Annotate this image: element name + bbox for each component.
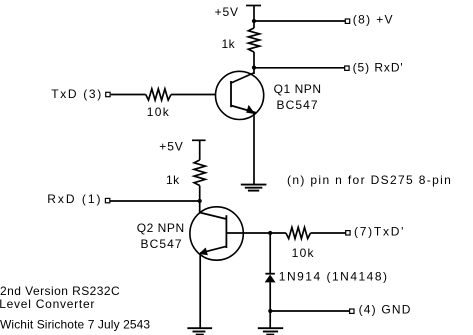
svg-text:(n) pin n for DS275 8-pin: (n) pin n for DS275 8-pin [287, 173, 452, 187]
svg-text:10k: 10k [292, 246, 315, 260]
svg-text:2nd Version RS232C: 2nd Version RS232C [0, 284, 120, 298]
svg-text:(8) +V: (8) +V [353, 13, 394, 27]
svg-text:1N914 (1N4148): 1N914 (1N4148) [279, 269, 389, 283]
svg-text:1k: 1k [222, 37, 236, 51]
svg-text:Q1 NPN: Q1 NPN [274, 82, 322, 96]
svg-text:BC547: BC547 [141, 237, 183, 251]
svg-text:10k: 10k [147, 105, 170, 119]
svg-text:+5V: +5V [215, 5, 239, 19]
svg-text:(5) RxD': (5) RxD' [353, 60, 404, 74]
svg-text:(7)TxD': (7)TxD' [354, 224, 405, 238]
svg-text:Level Converter: Level Converter [0, 297, 95, 311]
svg-text:RxD (1): RxD (1) [47, 192, 102, 206]
svg-text:Q2 NPN: Q2 NPN [137, 221, 185, 235]
svg-text:(4) GND: (4) GND [359, 302, 412, 316]
svg-text:+5V: +5V [159, 139, 183, 153]
svg-text:BC547: BC547 [277, 98, 319, 112]
svg-text:Wichit Sirichote 7 July 2543: Wichit Sirichote 7 July 2543 [0, 318, 150, 332]
svg-text:TxD (3): TxD (3) [51, 87, 103, 101]
svg-text:1k: 1k [166, 173, 180, 187]
